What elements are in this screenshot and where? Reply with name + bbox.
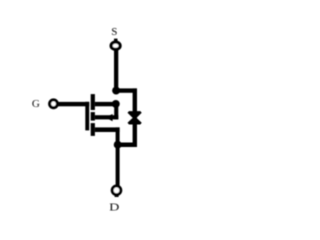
wire body stub horizontal [95,115,118,119]
junction dot source electrode [112,100,120,108]
wire gate horizontal [58,102,89,106]
terminal G circle [50,100,58,108]
svg-text:S: S [111,26,117,38]
wire drain electrode horizontal [95,127,120,132]
node D label [109,202,119,214]
junction dot S node [112,87,120,95]
wire S vertical [114,50,118,91]
transistor Q1 body arrow [105,114,112,121]
wire drain electrode vertical [116,127,120,144]
terminal S circle [111,39,120,50]
body diode D1 [128,111,142,124]
transistor Q1 gate bar [85,102,89,131]
wire D vertical [116,144,120,186]
node G label [32,98,40,110]
wire body stub vertical [114,104,118,120]
node S label [111,26,117,38]
transistor Q1 channel bottom segment [91,123,95,136]
transistor Q1 channel middle segment [91,112,95,121]
transistor Q1 channel top segment [91,94,95,110]
wire diode branch vertical [133,88,137,147]
wire source electrode horizontal [95,102,116,106]
wire diode branch bottom horizontal [118,143,137,148]
wire diode branch top horizontal [116,88,137,92]
svg-text:D: D [109,202,119,214]
terminal D circle [112,186,121,197]
svg-text:G: G [32,98,40,110]
junction dot D node [114,141,122,149]
